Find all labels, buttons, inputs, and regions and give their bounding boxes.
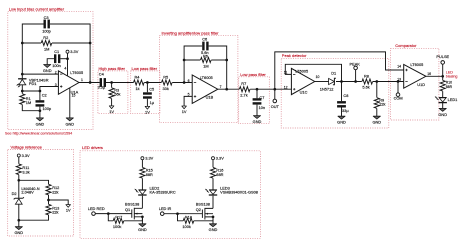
wire: R7 to C7 node to OUT node to U1C +in [250, 88, 291, 90]
svg-text:OUT: OUT [271, 104, 280, 109]
svg-text:100k: 100k [182, 224, 190, 229]
node dot R4/C5 [146, 81, 149, 84]
capacitor C3 [44, 20, 50, 29]
wire: LED IR gate wire [164, 213, 202, 215]
node dot R6 left [183, 59, 186, 62]
wire: PD1/C2 link at y91 [22, 90, 40, 92]
svg-text:C5: C5 [149, 87, 154, 92]
svg-text:2.048V: 2.048V [21, 190, 34, 195]
svg-text:PULSE: PULSE [436, 54, 449, 59]
wire: R6 left segment [184, 59, 200, 61]
svg-text:1: 1 [81, 78, 83, 82]
resistor R16 [210, 168, 215, 179]
wire: LED3 to Q2 drain [212, 196, 214, 209]
svg-text:12: 12 [284, 86, 288, 90]
op-amp U1D [404, 64, 426, 88]
wire: PEAK stem [355, 70, 357, 82]
wire: R13 bottom to D2 bottom [19, 215, 49, 227]
resistor R9 [374, 98, 379, 109]
net 1V under C5 [145, 106, 150, 114]
op-amp U1B [192, 75, 218, 103]
wire: R2 right segment [52, 42, 90, 44]
zener reference D2 LM4040 [14, 197, 24, 204]
transistor Q2 BSS138 [202, 208, 213, 220]
resistor R18 [183, 218, 194, 223]
svg-text:LED IR: LED IR [159, 206, 172, 211]
wire: Q1 source to GND [141, 217, 143, 224]
svg-text:PEAK: PEAK [350, 61, 361, 66]
wire: R17 left stem [108, 214, 113, 221]
section box: comparator [391, 48, 439, 120]
wire: R9 stems [376, 82, 378, 117]
svg-text:LT6005: LT6005 [410, 62, 423, 67]
wire: PD1 stems [21, 74, 23, 94]
diode D1 1N5712 [329, 78, 335, 84]
terminal PEAK [354, 66, 358, 70]
svg-text:11: 11 [284, 71, 288, 75]
wire: C1 left to GND [47, 59, 54, 65]
wire: OUT to comparator +in [275, 52, 404, 89]
svg-text:biasing: biasing [446, 75, 458, 79]
svg-text:LT6005: LT6005 [70, 70, 83, 75]
wire: R10 stems [442, 76, 444, 97]
wire: PULSE stem [442, 64, 444, 76]
svg-text:VSMB3940X01-GS08: VSMB3940X01-GS08 [220, 190, 258, 195]
resistor R11 [16, 164, 21, 175]
ground under C8 [337, 116, 346, 124]
svg-text:Low pass filter: Low pass filter [240, 72, 266, 77]
wire: R4 to C5 node to R5 [144, 82, 161, 84]
svg-text:2.7k: 2.7k [240, 92, 247, 97]
resistor R15 [140, 168, 145, 179]
wire: U1C out to D1 [315, 81, 329, 83]
section box: low input bias current amplifier [8, 12, 93, 130]
section box: inverting amplifier/low pass filter [160, 35, 238, 122]
ground under C2 [36, 118, 45, 126]
svg-text:High pass filter: High pass filter [99, 66, 126, 71]
ground under R9 [372, 116, 381, 124]
resistor R3 [109, 88, 114, 99]
svg-text:1N5712: 1N5712 [320, 87, 334, 92]
node dot R12/R13 [47, 199, 50, 202]
wire: divider node to R12 [19, 180, 49, 184]
wire: 3.3V stem to R15 [141, 160, 143, 168]
node dot PEAK [354, 80, 357, 83]
wire: R18 right to source [194, 217, 213, 221]
svg-text:3.3µ: 3.3µ [98, 84, 106, 89]
terminal LED IR [160, 212, 164, 216]
svg-text:BSS138: BSS138 [196, 201, 210, 206]
wire: C7 stems [256, 89, 258, 115]
wire: R8 to R9 node to U1D -in [373, 81, 404, 83]
wire: LED1 to GND [442, 103, 444, 109]
LED LED1 [435, 96, 447, 102]
svg-text:LT6005: LT6005 [295, 68, 308, 73]
wire: C1 right to 3.3V node [60, 58, 67, 60]
resistor R13 [46, 204, 51, 215]
svg-text:Low input bias current amplifi: Low input bias current amplifier [9, 6, 65, 11]
svg-text:68R: 68R [216, 172, 223, 177]
ground under LED1 [438, 108, 447, 116]
svg-text:22k: 22k [52, 210, 58, 215]
svg-text:Q2: Q2 [196, 207, 201, 212]
svg-text:1M: 1M [26, 100, 31, 105]
svg-text:Q1: Q1 [125, 207, 130, 212]
svg-text:U1B: U1B [206, 94, 214, 99]
resistor R10 [440, 80, 445, 91]
wire: R16 to LED3 [212, 178, 214, 190]
wire: R2 left segment [22, 42, 41, 44]
terminal PULSE [441, 61, 445, 65]
svg-text:1k: 1k [136, 86, 140, 91]
resistor R1 [20, 94, 25, 105]
wire: U1B out to R7 [218, 88, 239, 90]
svg-text:See http://www.linear.com/solu: See http://www.linear.com/solutions/1594 [5, 132, 72, 136]
svg-text:5.6k: 5.6k [362, 85, 369, 90]
svg-text:56k: 56k [114, 92, 120, 97]
svg-text:Low pass filter: Low pass filter [132, 66, 158, 71]
node dot Q2 source [212, 216, 215, 219]
wire: D1 to R8 [336, 81, 362, 83]
ground under C7 [253, 116, 262, 124]
svg-text:100k: 100k [113, 224, 121, 229]
wire: U1A -in to left rail up to C3 [22, 24, 58, 74]
svg-text:14: 14 [397, 64, 401, 68]
section box: peak detector [281, 58, 389, 128]
wire: U1C feedback loop [285, 64, 341, 81]
wire: Q2 source to GND [212, 217, 214, 224]
node dot PD1/R1 [21, 90, 24, 93]
wire: R5 to U1B -in [172, 82, 192, 84]
supply 3.3V at LED red driver [141, 156, 154, 161]
node dot gate/R18 [176, 212, 179, 215]
node dot PULSE [441, 75, 444, 78]
node dot COM [397, 80, 400, 83]
svg-text:100p: 100p [42, 28, 51, 33]
ground under C1 [43, 65, 52, 73]
wire: U1B +in to 1V [184, 96, 192, 106]
svg-text:R18: R18 [185, 215, 192, 220]
node dot R7/C7 [256, 88, 259, 91]
terminal COM [396, 93, 400, 97]
ground under U1A pin15 [65, 118, 74, 126]
svg-text:R4: R4 [135, 75, 141, 80]
node dot Q1 source [141, 215, 144, 218]
capacitor C2 [36, 100, 45, 106]
wire: OUT stem [274, 89, 276, 99]
svg-text:R5: R5 [163, 75, 168, 80]
capacitor C4 [100, 78, 106, 87]
svg-text:100n: 100n [52, 63, 61, 68]
svg-text:R6: R6 [203, 53, 208, 58]
wire: C2 bottom stem to GND [39, 107, 41, 118]
supply 3.3V at LED IR driver [212, 156, 225, 161]
wire: 3.3V stem to R16 [212, 160, 214, 168]
resistor R4 [134, 80, 145, 85]
svg-text:1M: 1M [203, 64, 208, 69]
svg-text:3: 3 [55, 83, 57, 87]
node dot left rail R2 [21, 42, 24, 45]
wire: U1B feedback left rail up to C6 [184, 46, 202, 83]
svg-text:Inverting amplifier/low pass f: Inverting amplifier/low pass filter [162, 30, 220, 35]
ground under D2 [14, 227, 23, 235]
section box: LED drivers [80, 151, 260, 239]
capacitor C7 [253, 98, 262, 104]
svg-text:C3: C3 [44, 15, 49, 20]
wire: U1A output to high pass filter [79, 82, 100, 84]
ground under Q1 [138, 224, 147, 232]
wire: D2 stems [18, 180, 20, 220]
wire: C6 right to right rail down to U1B out [209, 46, 227, 89]
op-amp U1C [291, 68, 314, 94]
svg-text:Peak detector: Peak detector [282, 53, 307, 58]
svg-text:10n: 10n [259, 105, 266, 110]
node dot R11/D2/R12 [17, 179, 20, 182]
svg-text:D1: D1 [331, 70, 336, 75]
svg-text:33k: 33k [163, 86, 169, 91]
svg-text:C8: C8 [343, 93, 348, 98]
svg-text:16: 16 [427, 72, 431, 76]
svg-text:C6: C6 [202, 37, 207, 42]
node dot C2 gnd [39, 109, 42, 112]
svg-text:R7: R7 [241, 81, 246, 86]
svg-text:U1C: U1C [300, 89, 308, 94]
section box: low pass filter 2 [239, 77, 270, 124]
svg-text:22k: 22k [52, 190, 58, 195]
wire: R17 right to source [124, 217, 143, 221]
node dot 3.3V/C1 [66, 57, 69, 60]
transistor Q1 BSS138 [132, 208, 143, 220]
svg-text:U1A: U1A [71, 89, 79, 94]
net 1V under U1B +in [182, 106, 187, 114]
capacitor C8 [337, 101, 346, 107]
svg-text:1M: 1M [44, 47, 49, 52]
supply 3.3V at reference [17, 153, 30, 158]
resistor R7 [239, 87, 250, 92]
svg-text:68R: 68R [146, 172, 153, 177]
wire: C8 stems [341, 82, 343, 117]
wire: R3 stems [111, 83, 113, 106]
node dot right rail R2 [89, 42, 92, 45]
svg-text:LED1: LED1 [448, 97, 458, 102]
node dot -in/PD1 [21, 73, 24, 76]
wire: LED RED gate wire [95, 213, 132, 215]
svg-text:LED RED: LED RED [88, 206, 105, 211]
terminal LED RED [92, 212, 96, 216]
LED LED2 [134, 189, 146, 195]
wire: C4 to R3 node to R4 [106, 82, 134, 84]
node dot feedback/input [183, 81, 186, 84]
svg-text:BSS138: BSS138 [125, 201, 139, 206]
node dot OUT [273, 88, 276, 91]
svg-text:22k: 22k [379, 102, 385, 107]
resistor R12 [46, 184, 51, 195]
svg-text:100p: 100p [43, 106, 52, 111]
node dot gate/R17 [107, 212, 110, 215]
section box: high pass filter [98, 71, 128, 114]
net 1V under R3 [109, 106, 114, 114]
svg-text:1µ: 1µ [150, 100, 155, 105]
LED LED3 [205, 189, 217, 195]
svg-text:R17: R17 [115, 215, 122, 220]
op-amp U1A [58, 71, 79, 95]
svg-text:68R: 68R [446, 85, 453, 89]
svg-text:Voltage reference: Voltage reference [11, 145, 43, 150]
svg-text:KA-3528SURC: KA-3528SURC [150, 190, 176, 195]
node dot R6 right [225, 59, 228, 62]
node dot D2/R13 bottom [17, 219, 20, 222]
svg-text:Comparator: Comparator [395, 43, 417, 48]
node dot C4/R3 [110, 81, 113, 84]
svg-text:2: 2 [55, 70, 57, 74]
wire: R12/R13 node to 1V [49, 195, 69, 205]
wire: C5 stems [146, 83, 148, 107]
capacitor C1 [54, 54, 60, 63]
wire: COM stem [397, 82, 399, 93]
svg-text:C1: C1 [54, 49, 59, 54]
photodiode PD1 [16, 79, 26, 88]
wire: R1 bottom to C2 bottom [22, 105, 40, 111]
svg-text:4: 4 [64, 66, 66, 70]
node dot U1A out [89, 81, 92, 84]
resistor R5 [162, 80, 173, 85]
svg-text:33µ: 33µ [342, 108, 349, 113]
wire: R6 right segment [211, 59, 226, 61]
wire: LED2 to Q1 drain [141, 196, 143, 209]
terminal OUT [273, 99, 277, 103]
svg-text:10: 10 [316, 75, 320, 79]
wire: C3 right to right rail down to output node [50, 24, 90, 83]
svg-text:U1D: U1D [417, 82, 425, 87]
supply 3.3V at U1A [66, 49, 79, 54]
resistor R2 [41, 40, 52, 45]
wire: U1A +in to C2 top [40, 87, 59, 101]
svg-text:C7: C7 [259, 95, 264, 100]
svg-text:PD1: PD1 [29, 81, 37, 86]
section box: low pass filter 1 [131, 71, 160, 114]
svg-text:C2: C2 [42, 93, 47, 98]
wire: R11 to divider node [18, 175, 20, 181]
svg-text:R8: R8 [364, 74, 369, 79]
svg-text:R10: R10 [446, 81, 452, 85]
svg-text:LED drivers: LED drivers [82, 145, 103, 150]
svg-text:5: 5 [188, 93, 190, 97]
resistor R8 [362, 79, 373, 84]
wire: 3.3V ref stem to R11 [18, 157, 20, 164]
ground under Q2 [209, 224, 218, 232]
wire: U1A pin 15 stub to GND [69, 88, 71, 118]
resistor R6 [201, 57, 212, 62]
node dot U1B out [225, 88, 228, 91]
svg-text:R2: R2 [43, 35, 48, 40]
wire: U1D out to PULSE node [426, 75, 443, 77]
section box: voltage reference [8, 149, 74, 236]
capacitor C6 [202, 42, 208, 51]
wire: 3.3V stem down to U1A pin 4 [67, 53, 69, 76]
svg-text:6: 6 [188, 79, 190, 83]
node dot D1/C8 [340, 80, 343, 83]
node dot R8/R9 [375, 80, 378, 83]
svg-text:COM: COM [394, 96, 403, 101]
svg-text:D2: D2 [12, 191, 17, 196]
wire: R18 left stem [178, 214, 184, 221]
svg-text:3.3k: 3.3k [22, 169, 29, 174]
net 1V output of divider [66, 205, 71, 213]
node dot +in/C2 [39, 90, 42, 93]
resistor R17 [113, 218, 124, 223]
svg-text:C4: C4 [99, 72, 105, 77]
wire: R15 to LED2 [141, 178, 143, 190]
capacitor C5 [143, 92, 152, 98]
svg-text:7: 7 [220, 85, 222, 89]
svg-text:LT6005: LT6005 [200, 75, 213, 80]
